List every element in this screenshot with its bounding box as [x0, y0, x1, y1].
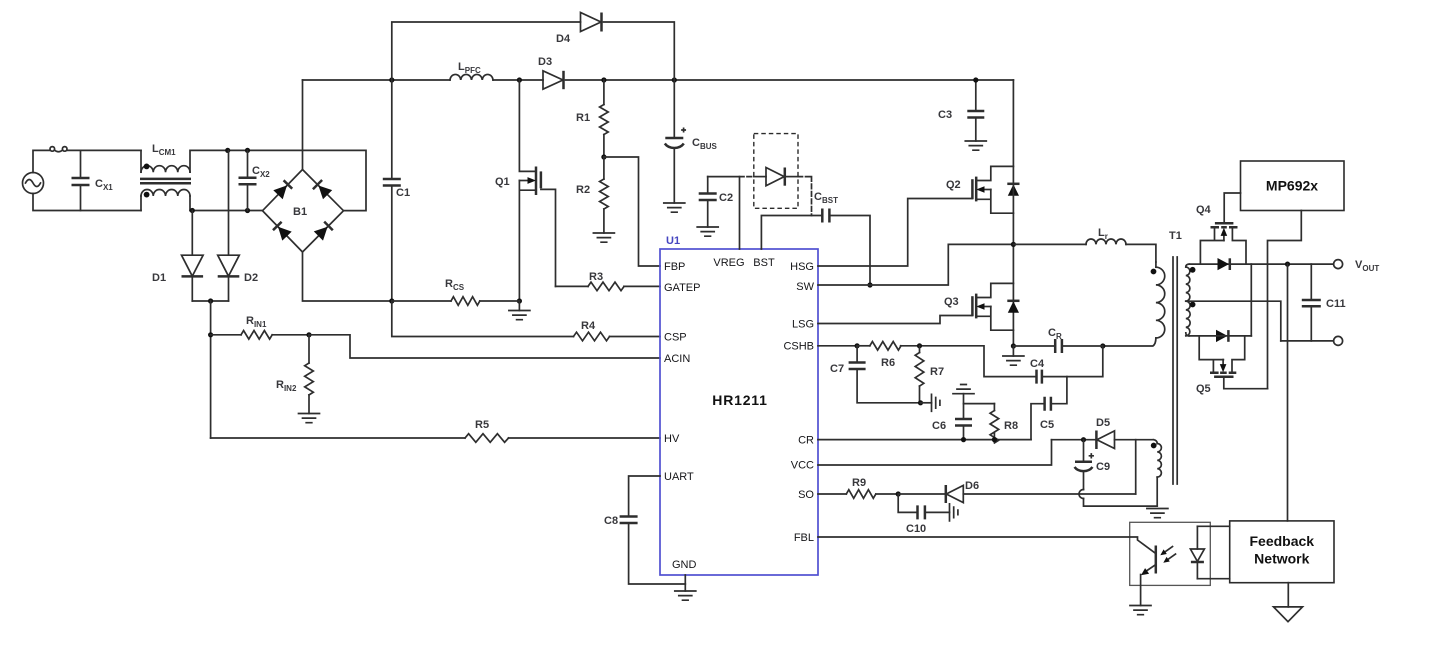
svg-text:R5: R5 [475, 419, 489, 431]
svg-text:R7: R7 [930, 366, 944, 378]
svg-text:Q1: Q1 [495, 176, 510, 188]
wire ac bottom [33, 194, 141, 211]
svg-text:C9: C9 [1096, 461, 1110, 473]
resistor R7 [915, 346, 944, 403]
transformer T1 core [1169, 230, 1182, 484]
svg-text:R3: R3 [589, 271, 603, 283]
svg-text:C3: C3 [938, 109, 952, 121]
IC U1 HR1211 controller [660, 235, 818, 575]
node R7 bottom [918, 400, 923, 405]
capacitor C2 [699, 177, 733, 227]
diode D5 [1096, 417, 1154, 449]
wire ac top 2 [67, 149, 141, 151]
terminal Vout+ [1334, 260, 1343, 269]
wire FBL row [818, 536, 1130, 538]
transformer T1 aux winding [1151, 440, 1162, 506]
capacitor C9 [1075, 440, 1158, 506]
ground aux [1147, 509, 1168, 518]
wire lower output rail [1281, 340, 1334, 342]
svg-text:C10: C10 [906, 523, 926, 535]
svg-text:B1: B1 [293, 206, 307, 218]
capacitor C4 [1030, 346, 1103, 384]
resistor RIN2 [276, 335, 313, 414]
transistor Q2 [946, 166, 1013, 213]
node R9-C10 [896, 491, 901, 496]
svg-text:ACIN: ACIN [664, 353, 690, 365]
resistor R3 [556, 271, 661, 291]
transistor Q3 [944, 283, 1013, 330]
node R1-R2 divider [601, 154, 606, 159]
fuse F1 [50, 147, 67, 152]
node R6-R7 [917, 343, 922, 348]
resistor R9 [846, 477, 898, 498]
resistor R6 [857, 342, 1036, 377]
resistor R2 [576, 157, 608, 233]
svg-text:SW: SW [796, 281, 814, 293]
capacitor C3 [938, 80, 984, 141]
svg-text:D5: D5 [1096, 417, 1110, 429]
wire ACIN [309, 335, 660, 358]
wire D6 up to D5 row [1135, 440, 1137, 494]
wire neutral to bridge [190, 210, 263, 212]
resistor RCS [392, 278, 520, 305]
svg-text:D6: D6 [965, 480, 979, 492]
node C3 top rail [973, 77, 978, 82]
svg-text:R2: R2 [576, 184, 590, 196]
svg-text:C4: C4 [1030, 358, 1045, 370]
svg-text:HR1211: HR1211 [712, 392, 767, 408]
ground half-bridge [1012, 346, 1014, 356]
chassis ground feedback [1274, 583, 1303, 622]
capacitor C1 [383, 80, 410, 301]
svg-text:CR: CR [798, 435, 814, 447]
wire SW row [818, 244, 1013, 285]
dashed optional diode box [740, 134, 812, 216]
wire VCC-D5 row [1052, 439, 1097, 441]
svg-text:C5: C5 [1040, 419, 1054, 431]
wire B1 plus up [302, 80, 304, 170]
wire half-bridge vertical [1012, 80, 1014, 346]
wire B1 minus down [303, 252, 393, 301]
transformer T1 secondary upper [1186, 264, 1196, 301]
diode D6 [898, 480, 1135, 503]
diode D3 [538, 56, 564, 89]
optocoupler box [1130, 522, 1211, 585]
transistor Q1 [495, 80, 556, 301]
capacitor CX2 [239, 150, 271, 210]
wire top rail [303, 79, 1014, 81]
wire FBP jog [604, 157, 660, 266]
body diode Q2 [1007, 184, 1019, 196]
wire HSG to Q2 gate [818, 199, 972, 267]
inductor Lr [1013, 227, 1156, 262]
wire SO row [818, 493, 846, 495]
svg-text:Feedback: Feedback [1250, 533, 1315, 549]
svg-text:UART: UART [664, 471, 694, 483]
node C1 bottom / CSP sense [389, 298, 394, 303]
diode sync upper [1218, 258, 1230, 270]
block MP692x [1241, 161, 1345, 211]
diode D4 [556, 13, 602, 46]
svg-text:SO: SO [798, 489, 814, 501]
resistor RIN1 [211, 315, 309, 339]
svg-text:Q5: Q5 [1196, 383, 1211, 395]
capacitor C6 [932, 385, 974, 440]
node C9 VCC [1081, 437, 1086, 442]
wire Vout to feedback [1287, 264, 1289, 521]
capacitor CBST [814, 191, 870, 285]
bridge rectifier B1 [263, 170, 344, 253]
svg-text:D3: D3 [538, 56, 552, 68]
svg-text:Q4: Q4 [1196, 204, 1212, 216]
svg-text:C1: C1 [396, 187, 410, 199]
capacitor C11 [1302, 264, 1346, 341]
wire MP692x to Q5 gate [1268, 211, 1302, 389]
svg-text:Q3: Q3 [944, 296, 959, 308]
node RIN1-RIN2 ACIN [306, 332, 311, 337]
svg-text:R6: R6 [881, 357, 895, 369]
capacitor C5 [1031, 377, 1067, 440]
wire ac top [33, 150, 50, 172]
svg-text:C11: C11 [1326, 298, 1346, 310]
wire center tap [1186, 301, 1281, 341]
node Q1 source RCS [517, 298, 522, 303]
ground C2 [697, 227, 718, 236]
ground opto emitter [1130, 606, 1151, 615]
transistor Q5 [1196, 336, 1268, 395]
svg-text:CSP: CSP [664, 332, 687, 344]
optocoupler light arrows [1160, 547, 1175, 563]
svg-text:GND: GND [672, 559, 697, 571]
svg-text:D4: D4 [556, 33, 571, 45]
node C6 bottom CR row [961, 437, 966, 442]
wire LSG to Q3 gate [818, 316, 972, 324]
svg-text:R1: R1 [576, 112, 590, 124]
wire down to RIN1 row [210, 301, 212, 438]
node CBST-SW [867, 282, 872, 287]
ac source VAC [23, 173, 44, 194]
wire lower diode row [1189, 335, 1252, 337]
svg-text:VREG: VREG [713, 257, 744, 269]
svg-text:VCC: VCC [791, 460, 814, 472]
svg-text:R8: R8 [1004, 420, 1018, 432]
svg-text:D2: D2 [244, 272, 258, 284]
wire C6 top to R8 [964, 403, 995, 405]
block Feedback Network [1230, 521, 1334, 583]
resistor R8 [990, 404, 1018, 443]
ground sideways at R7 [921, 402, 932, 404]
svg-text:FBL: FBL [794, 532, 814, 544]
svg-text:LSG: LSG [792, 319, 814, 331]
ground CBUS [664, 203, 685, 212]
capacitor C7 [830, 346, 921, 403]
ground C3 [965, 141, 986, 150]
transformer T1 secondary lower [1186, 301, 1196, 336]
wire D1-D2 join [192, 300, 228, 302]
node half-bridge return [1011, 343, 1016, 348]
capacitor CX1 [72, 150, 114, 210]
svg-text:R9: R9 [852, 477, 866, 489]
wire D4 branch [392, 22, 675, 80]
diode D2 [218, 150, 258, 301]
ground U1 [675, 591, 696, 600]
node Vout [1285, 262, 1290, 267]
svg-text:FBP: FBP [664, 261, 685, 273]
svg-text:T1: T1 [1169, 230, 1182, 242]
svg-text:HSG: HSG [790, 261, 814, 273]
svg-text:C7: C7 [830, 363, 844, 375]
svg-text:GATEP: GATEP [664, 282, 700, 294]
svg-text:R4: R4 [581, 320, 596, 332]
node neutral-D1 [190, 208, 195, 213]
ground Q1 source [518, 301, 520, 311]
svg-text:Q2: Q2 [946, 179, 961, 191]
svg-text:C6: C6 [932, 420, 946, 432]
terminal Vout- [1334, 336, 1343, 345]
svg-text:C2: C2 [719, 192, 733, 204]
node R8 bottom CR row [992, 437, 997, 442]
diode sync lower [1216, 330, 1228, 342]
svg-text:HV: HV [664, 433, 680, 445]
wire VCC row [818, 440, 1052, 465]
node CSHB C7 [855, 343, 860, 348]
capacitor C8 on UART [604, 476, 685, 584]
optocoupler phototransistor [1130, 537, 1156, 606]
optocoupler LED [1190, 526, 1229, 578]
svg-text:D1: D1 [152, 272, 166, 284]
inductor LCM1 common-mode choke [140, 143, 228, 211]
wire GND pin [684, 575, 686, 591]
wire BST stub [761, 216, 822, 250]
svg-text:U1: U1 [666, 235, 680, 247]
capacitor CR [1013, 327, 1102, 353]
svg-text:CSHB: CSHB [783, 341, 814, 353]
wire Q5 right riser [1250, 264, 1252, 336]
resistor R1 [576, 80, 608, 157]
resistor R5 [465, 419, 660, 442]
capacitor CBUS [665, 80, 718, 203]
svg-text:C8: C8 [604, 515, 618, 527]
diode D1 [152, 211, 203, 302]
wire upper output rail [1189, 263, 1333, 265]
ground RIN2 [299, 414, 320, 423]
inductor LPFC [450, 61, 493, 80]
svg-text:Network: Network [1254, 551, 1309, 567]
svg-text:MP692x: MP692x [1266, 178, 1318, 194]
capacitor C10 [898, 494, 958, 535]
resistor R4 [574, 320, 661, 341]
wire line to bridge [228, 150, 366, 210]
svg-text:BST: BST [753, 257, 775, 269]
wire VREG stub [708, 177, 740, 249]
transistor Q4 [1196, 193, 1246, 264]
ground R2 [593, 233, 614, 242]
wire HV row [211, 437, 465, 439]
wire CR row [818, 439, 1031, 441]
wire CSP [392, 301, 574, 337]
body diode Q3 [1007, 301, 1019, 313]
transformer T1 primary [1103, 262, 1165, 346]
node primary bottom CR [1100, 343, 1105, 348]
node line-CX2 [225, 148, 230, 153]
wire CSHB row [818, 345, 857, 347]
